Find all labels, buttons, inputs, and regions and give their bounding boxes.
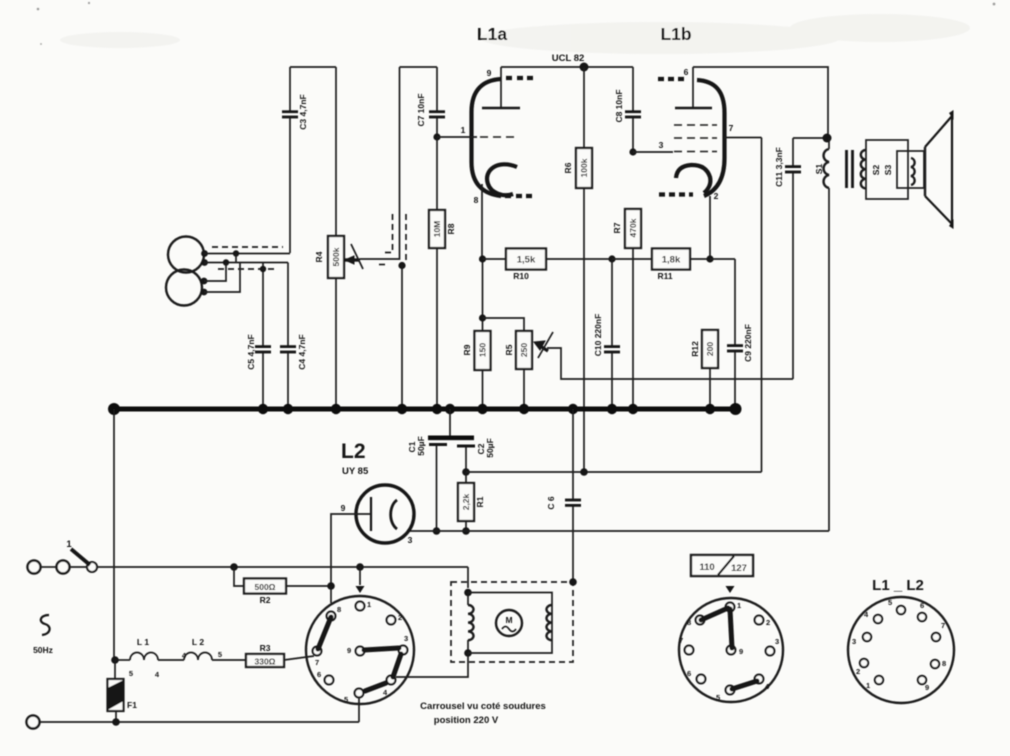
chassis bus	[108, 403, 742, 415]
svg-text:4: 4	[864, 610, 869, 619]
svg-text:330Ω: 330Ω	[255, 657, 276, 667]
carousel pins	[313, 600, 409, 704]
capacitor C8	[614, 67, 641, 152]
svg-text:S1: S1	[814, 164, 824, 175]
svg-text:C8 10nF: C8 10nF	[614, 89, 624, 122]
svg-text:2: 2	[766, 618, 770, 627]
svg-text:R5: R5	[504, 344, 514, 355]
svg-text:3: 3	[775, 637, 779, 646]
svg-text:R7: R7	[612, 222, 622, 233]
svg-text:9: 9	[925, 683, 929, 692]
svg-text:110: 110	[699, 562, 714, 573]
svg-text:R8: R8	[446, 223, 456, 234]
wire row to C9	[710, 258, 735, 260]
svg-text:M: M	[505, 615, 512, 625]
wire R5 wiper feedback line	[547, 348, 793, 379]
svg-text:1,8k: 1,8k	[662, 255, 681, 266]
resistor R10	[483, 249, 613, 282]
node rectifier output row	[433, 527, 441, 535]
wire to motor	[467, 567, 469, 588]
wire shielded dashed line upper	[212, 246, 283, 248]
svg-text:150: 150	[478, 343, 488, 357]
svg-text:8: 8	[474, 195, 479, 205]
connector circle L1 L2	[848, 597, 954, 703]
wire to pentode grid pin 3	[633, 151, 673, 153]
wire B+ filtered row	[466, 471, 762, 473]
wire R4 wiper to C7 loop	[360, 67, 400, 259]
wire switched line	[97, 566, 468, 568]
resistor R9	[462, 331, 491, 409]
motor frame box	[468, 593, 552, 654]
svg-text:2: 2	[398, 613, 402, 622]
svg-text:6: 6	[317, 670, 321, 679]
paper specks	[37, 2, 996, 45]
svg-text:R6: R6	[563, 162, 573, 173]
svg-text:50µF: 50µF	[485, 438, 495, 458]
potentiometer R5	[483, 318, 554, 409]
speaker cone	[925, 110, 954, 229]
shield dashed lines at R4 wiper	[379, 214, 406, 265]
wire dashed shield line lower	[218, 268, 278, 270]
svg-text:7: 7	[315, 658, 319, 667]
svg-text:L1b: L1b	[660, 24, 691, 44]
svg-text:8: 8	[687, 618, 691, 627]
svg-text:R4: R4	[314, 251, 324, 262]
svg-text:L1 _ L2: L1 _ L2	[872, 577, 924, 594]
svg-text:R11: R11	[657, 271, 672, 281]
resistor R1	[458, 472, 485, 531]
wire carousel pin5 down	[358, 698, 360, 723]
cathode of L1a (pin 8)	[474, 164, 517, 331]
svg-text:9: 9	[347, 646, 351, 655]
node anode S1	[823, 134, 832, 143]
svg-text:F1: F1	[127, 700, 137, 710]
svg-text:6: 6	[687, 669, 691, 678]
triode L1a envelope	[472, 78, 534, 196]
svg-text:R12: R12	[690, 341, 700, 357]
node fuse bottom	[112, 718, 120, 726]
svg-text:R2: R2	[260, 595, 271, 605]
choke L2	[158, 637, 222, 660]
scan noise band	[60, 14, 970, 54]
secondary S2 box	[861, 140, 908, 199]
svg-text:L2: L2	[341, 440, 366, 463]
svg-text:Carrousel vu coté soudures: Carrousel vu coté soudures	[420, 701, 546, 712]
svg-text:5: 5	[218, 650, 222, 659]
selector rotor bars	[701, 608, 757, 689]
wire pickup second line to C4	[204, 259, 288, 265]
wire C11 to S1 node	[793, 137, 827, 139]
svg-text:1: 1	[367, 600, 371, 609]
svg-text:2: 2	[856, 667, 860, 676]
svg-text:C7 10nF: C7 10nF	[416, 93, 426, 126]
capacitor C6	[546, 409, 581, 582]
resistor R8	[429, 137, 456, 409]
pickup cartridge PU (two coils)	[166, 237, 208, 306]
wire bottom line	[40, 721, 359, 723]
svg-text:8: 8	[942, 659, 946, 668]
svg-text:5: 5	[129, 669, 133, 678]
svg-text:L 2: L 2	[192, 637, 204, 647]
transformer core	[847, 150, 853, 188]
selector carousel circle 110/127	[679, 598, 783, 702]
svg-text:C10 220nF: C10 220nF	[593, 314, 603, 357]
svg-text:7: 7	[941, 621, 945, 630]
svg-text:L 1: L 1	[137, 637, 149, 647]
motor winding left	[464, 589, 473, 657]
node R6 bottom on B+	[580, 468, 588, 476]
wiper arrow of R4	[345, 244, 363, 269]
resistor R12	[690, 330, 718, 409]
node C8 to grid junction	[629, 148, 636, 155]
svg-text:9: 9	[341, 503, 346, 513]
pentode L1b envelope	[658, 79, 725, 196]
svg-text:9: 9	[487, 68, 492, 78]
svg-text:R3: R3	[260, 643, 271, 653]
resistor R7	[612, 209, 641, 409]
svg-text:1: 1	[66, 539, 72, 550]
svg-text:6: 6	[920, 601, 924, 610]
AC symbol 50Hz	[33, 615, 53, 655]
mains terminal top pair	[28, 561, 88, 574]
svg-text:2,2k: 2,2k	[461, 493, 471, 510]
svg-text:250: 250	[519, 343, 529, 357]
svg-text:5: 5	[344, 695, 348, 704]
svg-text:position 220 V: position 220 V	[434, 715, 499, 726]
connector pins L1 L2	[852, 598, 946, 692]
mains neutral drop	[113, 409, 115, 660]
electrolytic C1 C2 common plate	[428, 409, 474, 438]
svg-text:6: 6	[684, 67, 689, 77]
capacitor C1 50uF	[407, 436, 447, 531]
node C10	[608, 255, 615, 262]
capacitor C2 50uF	[457, 438, 495, 472]
svg-text:9: 9	[739, 647, 743, 656]
svg-text:470k: 470k	[628, 218, 638, 237]
resistor R11	[612, 249, 710, 282]
svg-text:7: 7	[729, 123, 734, 133]
svg-text:3: 3	[659, 140, 664, 150]
voltage selector label 110/127	[691, 555, 753, 593]
svg-text:10M: 10M	[432, 221, 442, 238]
svg-text:S3: S3	[883, 165, 893, 176]
rectifier L2 UY85	[341, 440, 414, 545]
wire L2 pin9 heater	[331, 514, 354, 586]
wire pickup terminal 4 loop	[204, 263, 240, 293]
mains terminal bottom	[27, 716, 40, 729]
node pin2 column	[706, 255, 713, 262]
svg-text:R9: R9	[462, 344, 472, 355]
wire arrow to carousel pin 1	[356, 567, 365, 593]
screen grid wire (pin 7)	[724, 123, 762, 138]
capacitor C11 feedback	[774, 138, 801, 379]
svg-text:50µF: 50µF	[416, 436, 426, 456]
svg-text:8: 8	[337, 605, 341, 614]
wire C3 loop top rail	[290, 66, 336, 68]
svg-text:UY 85: UY 85	[342, 466, 369, 477]
svg-text:7: 7	[679, 636, 683, 645]
speaker magnet and voice coil	[897, 151, 924, 188]
resistor R2	[234, 567, 331, 605]
svg-text:3: 3	[852, 637, 856, 646]
svg-text:C3 4,7nF: C3 4,7nF	[298, 94, 308, 129]
svg-text:127: 127	[731, 563, 747, 574]
node rail R6	[580, 63, 589, 72]
svg-text:4: 4	[155, 670, 160, 679]
node heater junction	[327, 582, 335, 590]
svg-text:C 6: C 6	[546, 496, 556, 510]
svg-text:L1a: L1a	[477, 24, 507, 44]
node cathode row left	[479, 255, 486, 262]
caption carousel	[420, 701, 546, 726]
svg-text:1,5k: 1,5k	[517, 255, 536, 266]
cathode of L1b (pin 2)	[676, 165, 719, 259]
node B+ filtered	[462, 468, 470, 476]
node R2 tap	[230, 563, 238, 571]
svg-text:5: 5	[716, 693, 720, 702]
output transformer primary S1	[814, 138, 829, 531]
node cathode branch	[479, 314, 486, 321]
capacitor C3	[282, 67, 308, 253]
carousel switch circle	[306, 596, 414, 704]
svg-text:1: 1	[461, 125, 466, 135]
svg-text:100k: 100k	[579, 158, 589, 177]
wire to carousel pin 8	[330, 586, 332, 603]
capacitor C5	[246, 263, 271, 410]
svg-text:50Hz: 50Hz	[33, 645, 53, 655]
svg-text:UCL 82: UCL 82	[552, 53, 585, 64]
svg-text:C11 3,3nF: C11 3,3nF	[774, 147, 784, 187]
motor enclosure dashed	[451, 578, 577, 662]
grids of L1b	[659, 125, 717, 152]
node carousel feed	[356, 563, 364, 571]
svg-text:1: 1	[737, 601, 741, 610]
svg-text:200: 200	[705, 342, 715, 356]
wire B+ raw row	[408, 530, 829, 532]
svg-text:5: 5	[888, 598, 892, 607]
svg-text:R10: R10	[513, 271, 529, 281]
node shield ground	[398, 262, 405, 409]
svg-text:C4 4,7nF: C4 4,7nF	[297, 334, 307, 369]
anode of L1a (pin 9)	[482, 67, 520, 108]
wire pickup terminal 3 loop	[204, 263, 226, 282]
svg-text:3: 3	[408, 535, 413, 545]
fuse F1	[108, 660, 138, 722]
anode of L1b (pin 6)	[675, 67, 712, 108]
svg-text:2: 2	[714, 191, 719, 201]
svg-text:S2: S2	[871, 165, 881, 176]
svg-text:500Ω: 500Ω	[255, 582, 276, 592]
wire C7 loop top rail	[400, 66, 438, 68]
svg-text:500k: 500k	[331, 247, 341, 266]
capacitor C4	[280, 263, 307, 410]
potentiometer R4 (volume)	[314, 67, 344, 409]
capacitor C10	[593, 259, 620, 409]
resistor R3	[212, 643, 314, 667]
capacitor C7	[416, 67, 445, 137]
motor M symbol	[496, 610, 522, 636]
svg-text:R1: R1	[475, 496, 485, 507]
wire pickup top line to C3	[204, 250, 290, 262]
svg-text:1: 1	[866, 681, 870, 690]
resistor R6	[563, 67, 592, 472]
carousel rotor bars	[318, 617, 401, 691]
node grid L1a junction	[433, 133, 440, 140]
svg-text:C9 220nF: C9 220nF	[743, 324, 753, 362]
grid of L1a (pin 1)	[437, 125, 514, 137]
selector pins	[679, 601, 779, 702]
wire motor return to pin 4	[396, 653, 468, 677]
wire screen column down to B+ line	[761, 138, 763, 473]
choke L1	[115, 637, 160, 679]
svg-text:C5 4,7nF: C5 4,7nF	[246, 334, 256, 369]
wire triode anode rail	[501, 66, 633, 68]
svg-text:3: 3	[404, 634, 408, 643]
capacitor C9	[727, 259, 753, 409]
node choke row	[111, 656, 119, 664]
switch I	[66, 539, 97, 572]
wire pentode anode rail	[693, 67, 828, 138]
